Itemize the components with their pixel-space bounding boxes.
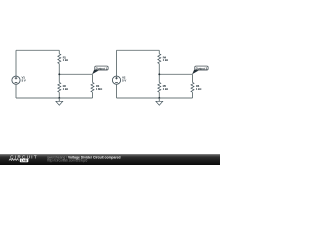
ground symbol (56, 98, 63, 105)
CircuitLab logo: LAB box (20, 159, 29, 163)
wire: top rail from V1 to divider column (16, 49, 59, 51)
voltage source V1 (5 V) (12, 76, 26, 85)
resistor R4 (1 kΩ) top of divider (158, 50, 168, 74)
svg-text:LAB: LAB (21, 159, 27, 163)
svg-text:1 kΩ: 1 kΩ (163, 87, 168, 91)
svg-text:1 kΩ: 1 kΩ (63, 58, 68, 62)
voltage source V2 (5 V) (112, 76, 126, 85)
svg-text:Output 1: Output 1 (96, 66, 108, 70)
CircuitLab logo: waveform squiggle (9, 159, 19, 161)
resistor R5 (1 kΩ) bottom of divider (158, 74, 168, 98)
wire: from V1 minus terminal down to bottom rail (15, 84, 17, 98)
wire: mid rail (divider tap to load) (159, 73, 192, 75)
svg-text:1 kΩ: 1 kΩ (196, 87, 201, 91)
svg-text:5 V: 5 V (22, 78, 26, 82)
ground symbol (156, 98, 163, 105)
wire: mid rail (divider tap to load) (59, 73, 92, 75)
junction node: divider tap (158, 73, 160, 75)
wire: bottom rail (117, 97, 193, 99)
resistor R3 (1 MΩ) load (91, 74, 102, 98)
resistor R6 (1 kΩ) load (191, 74, 201, 98)
junction node: bottom rail / ground (158, 97, 160, 99)
resistor R1 (1 kΩ) top of divider (58, 50, 68, 74)
wire: left rail down to voltage source V1 (15, 50, 17, 76)
wire: left rail down to voltage source V2 (116, 50, 118, 76)
svg-text:1 kΩ: 1 kΩ (63, 87, 68, 91)
svg-text:1 kΩ: 1 kΩ (163, 58, 168, 62)
wire: top rail from V2 to divider column (117, 49, 160, 51)
svg-text:Output 2: Output 2 (196, 66, 208, 70)
svg-text:5 V: 5 V (122, 78, 126, 82)
footer bar (0, 154, 220, 165)
svg-text:http://circuitlab.com/c/59qz6: http://circuitlab.com/c/59qz6 (47, 159, 87, 163)
junction node: divider tap (58, 73, 60, 75)
svg-text:1 MΩ: 1 MΩ (96, 87, 102, 91)
wire: bottom rail (16, 97, 93, 99)
junction node: bottom rail / ground (58, 97, 60, 99)
resistor R2 (1 kΩ) bottom of divider (58, 74, 68, 98)
output flag Output 1 (92, 66, 108, 74)
output flag Output 2 (192, 66, 208, 74)
wire: from V2 minus terminal down to bottom rail (116, 84, 118, 98)
